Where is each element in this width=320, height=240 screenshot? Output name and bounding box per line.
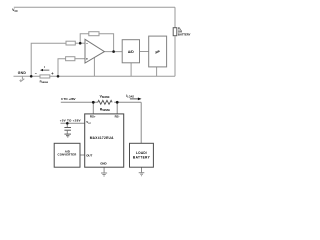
wire RS+ pin xyxy=(92,102,94,114)
node junction dots bottom circuit xyxy=(66,101,119,125)
ground stem chip GND xyxy=(103,167,105,173)
wire RS- pin xyxy=(116,102,118,114)
chip MAX4172 box xyxy=(85,114,124,167)
node VCC top rail wire xyxy=(14,6,175,8)
wire sense line left segment xyxy=(61,101,98,103)
current arrow I over RSENSE xyxy=(40,69,49,71)
wire uP ground stem xyxy=(156,67,158,76)
wire R1 to op-amp minus input xyxy=(75,42,85,44)
polarity minus left of RSENSE xyxy=(35,72,37,74)
resistor R3 box xyxy=(66,57,75,61)
ground chassis symbol xyxy=(21,76,23,79)
uP box xyxy=(149,36,167,67)
svg-text:LOAD/: LOAD/ xyxy=(136,151,147,155)
A/D converter box xyxy=(54,143,80,167)
svg-text:BATTERY: BATTERY xyxy=(133,156,151,160)
A/D box xyxy=(122,40,139,63)
arrow ILOAD xyxy=(130,98,142,101)
svg-text:MAX4172EUA: MAX4172EUA xyxy=(90,136,114,140)
wire A/D ground stem xyxy=(130,63,132,77)
svg-text:GND: GND xyxy=(18,71,27,75)
wire inverting input vertical+horizontal xyxy=(31,43,66,76)
wire right vertical to RL xyxy=(174,7,176,27)
svg-text:CONVERTER: CONVERTER xyxy=(58,153,77,157)
svg-text:RS-: RS- xyxy=(115,114,120,118)
svg-text:VCC: VCC xyxy=(12,8,18,13)
wire OUT pin to A/D converter xyxy=(80,154,85,156)
wire R3 to op-amp plus input xyxy=(75,58,85,60)
wire VCC supply to chip xyxy=(61,122,85,124)
resistor RL box xyxy=(173,28,177,36)
svg-text:ILOAD: ILOAD xyxy=(126,94,134,99)
resistor R1 box xyxy=(66,41,75,45)
wire noninverting input vertical+horizontal xyxy=(58,59,66,77)
capacitor C1 plates xyxy=(64,127,71,129)
wire down to load xyxy=(140,102,142,143)
svg-text:A/D: A/D xyxy=(128,50,134,54)
polarity plus right of RSENSE xyxy=(51,72,53,74)
wire sense line right segment xyxy=(114,101,141,103)
resistor RSENSE box on rail xyxy=(40,75,50,78)
wire RL to bottom rail xyxy=(174,36,176,77)
resistor R2 feedback box xyxy=(89,32,99,36)
capacitor C1 stem top xyxy=(66,123,68,127)
op-amp U1 triangle xyxy=(85,39,104,63)
svg-text:+5V TO +28V: +5V TO +28V xyxy=(60,118,82,122)
svg-text:OUT: OUT xyxy=(86,153,92,157)
wire op-amp output to A/D xyxy=(104,51,122,53)
op-amp input polarity marks xyxy=(86,43,88,60)
ground stem load xyxy=(141,167,143,172)
wire op-amp ground stem xyxy=(93,58,95,77)
svg-text:0 TO +28V: 0 TO +28V xyxy=(61,97,76,101)
svg-text:RS+: RS+ xyxy=(90,114,96,118)
capacitor C1 stem bottom + ground xyxy=(66,130,68,134)
svg-text:BATTERY: BATTERY xyxy=(178,32,191,36)
node junction dots top circuit xyxy=(30,42,115,78)
svg-text:GND: GND xyxy=(100,162,106,166)
load/battery box xyxy=(130,143,154,167)
wire bottom GND rail xyxy=(14,75,176,77)
svg-text:VSENSE: VSENSE xyxy=(100,94,110,99)
svg-text:RSENSE: RSENSE xyxy=(40,79,49,84)
svg-text:µP: µP xyxy=(155,50,160,54)
svg-text:I: I xyxy=(44,65,45,69)
svg-text:RSENSE: RSENSE xyxy=(100,107,111,112)
wire feedback to output node xyxy=(99,34,114,52)
wire feedback tap up and across xyxy=(80,34,89,44)
wire A/D to uP xyxy=(140,51,149,53)
resistor RSENSE zigzag xyxy=(98,100,112,104)
